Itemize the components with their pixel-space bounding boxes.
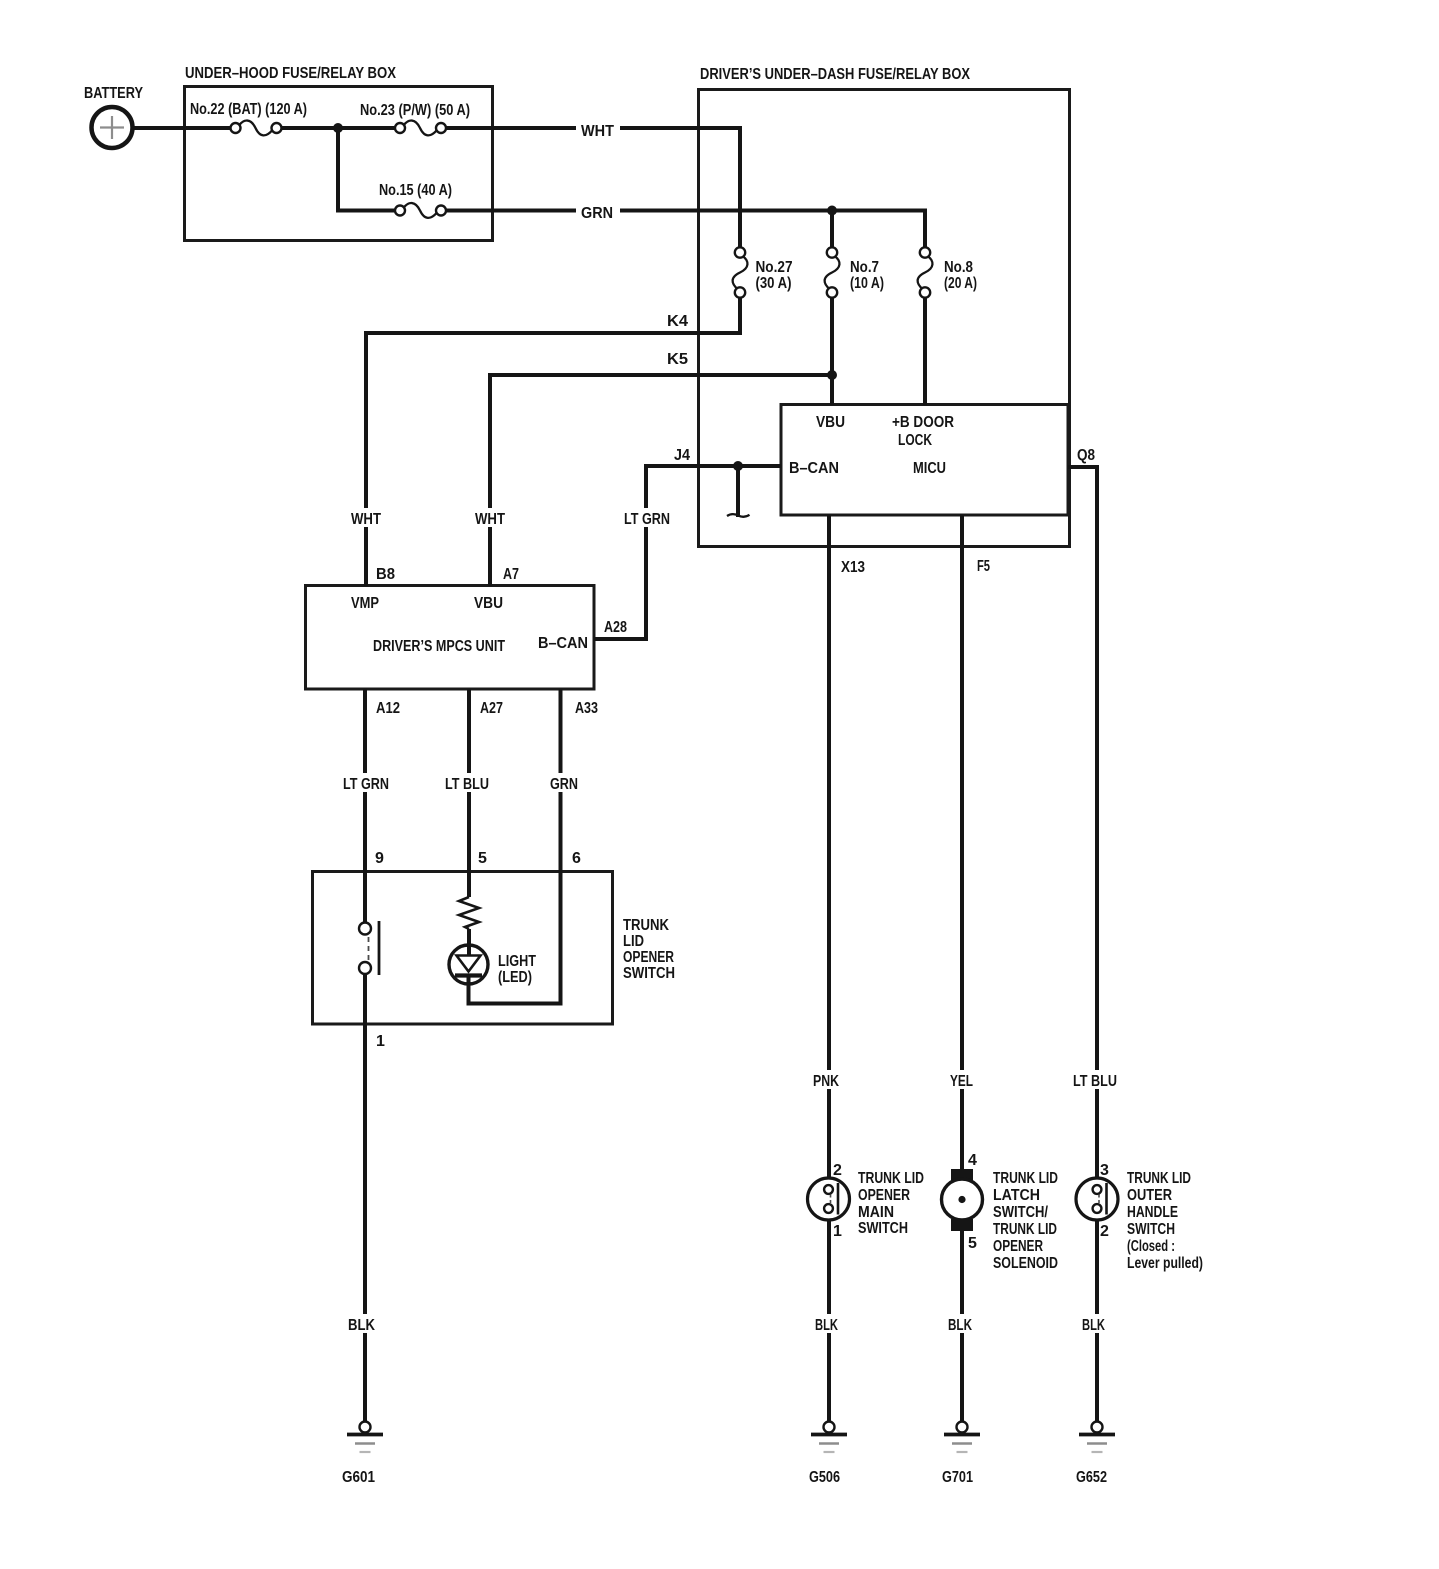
svg-text:G652: G652 xyxy=(1076,1469,1107,1486)
svg-text:WHT: WHT xyxy=(475,511,505,528)
wire F5 MICU to trunk lid latch switch/solenoid xyxy=(960,515,964,1170)
svg-text:F5: F5 xyxy=(977,558,990,575)
svg-text:K4: K4 xyxy=(667,313,688,330)
wire label GRN right column xyxy=(546,773,582,793)
svg-text:1: 1 xyxy=(833,1223,842,1240)
wire label LT BLU middle column xyxy=(441,773,493,793)
svg-text:OPENER: OPENER xyxy=(993,1238,1043,1255)
svg-text:No.7: No.7 xyxy=(850,259,879,276)
svg-text:TRUNK LID: TRUNK LID xyxy=(1127,1170,1191,1187)
svg-text:MICU: MICU xyxy=(913,460,946,477)
svg-text:No.27: No.27 xyxy=(756,259,793,276)
svg-text:No.15 (40 A): No.15 (40 A) xyxy=(379,182,452,199)
wire A27 LT BLU to resistor pin 5 xyxy=(467,689,471,897)
node junction B-CAN J4 xyxy=(733,461,743,471)
svg-text:DRIVER’S MPCS UNIT: DRIVER’S MPCS UNIT xyxy=(373,638,505,655)
wire fuse No.22 to node A xyxy=(281,126,334,130)
wire node A to fuse No.23 xyxy=(342,126,396,130)
svg-text:VMP: VMP xyxy=(351,595,379,612)
driver's under-dash fuse/relay box xyxy=(699,90,1070,547)
svg-text:TRUNK LID: TRUNK LID xyxy=(858,1170,924,1187)
svg-text:OPENER: OPENER xyxy=(858,1187,910,1204)
svg-text:9: 9 xyxy=(375,850,384,867)
svg-text:SOLENOID: SOLENOID xyxy=(993,1255,1058,1272)
svg-text:K5: K5 xyxy=(667,351,688,368)
svg-text:UNDER–HOOD FUSE/RELAY BOX: UNDER–HOOD FUSE/RELAY BOX xyxy=(185,65,396,82)
svg-text:YEL: YEL xyxy=(950,1073,973,1090)
wire fuse No.8 down to MICU +B DOOR LOCK pin xyxy=(923,297,927,405)
svg-text:TRUNK LID: TRUNK LID xyxy=(993,1170,1058,1187)
svg-text:TRUNK LID: TRUNK LID xyxy=(993,1221,1057,1238)
svg-text:LT BLU: LT BLU xyxy=(445,776,489,793)
fuse No.15 (40 A) xyxy=(395,203,446,218)
fuse No.7 (10 A) xyxy=(825,247,840,297)
svg-text:(Closed :: (Closed : xyxy=(1127,1238,1175,1255)
wire GRN fuse No.15 to under-dash box down to fuse No.8 xyxy=(446,211,926,249)
trunk lid latch switch / trunk lid opener solenoid xyxy=(942,1169,983,1231)
svg-text:2: 2 xyxy=(1100,1223,1109,1240)
svg-text:WHT: WHT xyxy=(351,511,381,528)
MICU unit box xyxy=(781,405,1068,516)
trunk lid outer handle switch xyxy=(1076,1178,1118,1220)
svg-text:3: 3 xyxy=(1100,1162,1109,1179)
svg-text:A28: A28 xyxy=(604,619,627,636)
wire X13 MICU to trunk lid opener main switch xyxy=(827,515,831,1186)
fuse No.7 value label xyxy=(850,259,884,292)
svg-text:OUTER: OUTER xyxy=(1127,1187,1172,1204)
trunk lid latch switch / opener solenoid label xyxy=(993,1170,1058,1272)
svg-text:LT GRN: LT GRN xyxy=(343,776,389,793)
svg-text:5: 5 xyxy=(478,850,487,867)
wire solenoid pin 5 to ground G701 xyxy=(960,1230,964,1422)
ground G506 xyxy=(811,1422,847,1453)
wire fuse No.7 down to MICU VBU pin xyxy=(830,297,834,405)
fuse No.27 (30 A) xyxy=(733,247,748,297)
svg-text:LIGHT: LIGHT xyxy=(498,953,536,970)
wire main switch pin 1 to ground G506 xyxy=(827,1213,831,1422)
svg-text:SWITCH/: SWITCH/ xyxy=(993,1204,1048,1221)
wire label LT GRN left column xyxy=(339,773,393,793)
LED light xyxy=(449,945,488,984)
trunk lid opener switch box xyxy=(313,872,613,1025)
svg-text:G506: G506 xyxy=(809,1469,840,1486)
wire battery to fuse No.22 xyxy=(131,126,231,130)
svg-text:2: 2 xyxy=(833,1162,842,1179)
fuse No.27 value label xyxy=(756,259,793,292)
svg-text:GRN: GRN xyxy=(581,205,613,222)
wire label LT BLU right column xyxy=(1069,1070,1121,1090)
svg-text:Q8: Q8 xyxy=(1077,447,1095,464)
MICU pin label +B DOOR LOCK xyxy=(892,414,954,449)
svg-text:(LED): (LED) xyxy=(498,969,532,986)
wire label WHT middle xyxy=(470,508,510,528)
wire label BLK G701 xyxy=(944,1314,976,1334)
svg-text:G701: G701 xyxy=(942,1469,973,1486)
wire label GRN top xyxy=(576,202,620,222)
node junction K5 xyxy=(827,370,837,380)
trunk lid outer handle switch label xyxy=(1127,1170,1203,1272)
svg-text:+B DOOR: +B DOOR xyxy=(892,414,954,431)
svg-text:BATTERY: BATTERY xyxy=(84,85,143,102)
svg-text:No.22 (BAT) (120 A): No.22 (BAT) (120 A) xyxy=(190,101,307,118)
svg-text:No.8: No.8 xyxy=(944,259,973,276)
wire label BLK left xyxy=(344,1314,380,1334)
svg-text:(10 A): (10 A) xyxy=(850,275,884,292)
svg-text:SWITCH: SWITCH xyxy=(858,1220,908,1237)
svg-text:DRIVER’S UNDER–DASH FUSE/RELAY: DRIVER’S UNDER–DASH FUSE/RELAY BOX xyxy=(700,66,970,83)
svg-text:1: 1 xyxy=(376,1033,385,1050)
driver's MPCS unit box xyxy=(306,586,595,690)
svg-text:LOCK: LOCK xyxy=(898,432,932,449)
fuse No.8 value label xyxy=(944,259,977,292)
svg-text:VBU: VBU xyxy=(816,414,845,431)
wire Q8 MICU to trunk lid outer handle switch xyxy=(1068,467,1097,1185)
svg-text:(20 A): (20 A) xyxy=(944,275,977,292)
svg-text:BLK: BLK xyxy=(815,1317,838,1334)
under-hood fuse/relay box xyxy=(185,87,493,241)
wire node A down to fuse No.15 xyxy=(338,128,396,211)
svg-text:4: 4 xyxy=(968,1152,977,1169)
svg-text:HANDLE: HANDLE xyxy=(1127,1204,1178,1221)
wire label PNK xyxy=(809,1070,843,1090)
svg-text:B–CAN: B–CAN xyxy=(538,635,588,652)
ground G701 xyxy=(944,1422,980,1453)
svg-text:A12: A12 xyxy=(376,700,400,717)
svg-text:LID: LID xyxy=(623,933,644,950)
svg-text:J4: J4 xyxy=(674,447,690,464)
fuse No.23 (P/W) (50 A) xyxy=(395,121,446,136)
fuse No.8 (20 A) xyxy=(918,247,933,297)
wire GRN node down to fuse No.7 xyxy=(830,211,834,249)
LED value label xyxy=(498,953,536,986)
svg-text:Lever pulled): Lever pulled) xyxy=(1127,1255,1203,1272)
svg-text:B8: B8 xyxy=(376,566,395,583)
wire WHT fuse No.23 to under-dash box down to fuse No.27 xyxy=(446,128,741,248)
wire label LT GRN right xyxy=(620,508,674,528)
svg-text:BLK: BLK xyxy=(948,1317,972,1334)
wire A33 GRN pin 6 to LED cathode xyxy=(469,689,561,1004)
svg-text:WHT: WHT xyxy=(581,123,614,140)
svg-text:VBU: VBU xyxy=(474,595,503,612)
node junction GRN / fuse No.7 xyxy=(827,206,837,216)
svg-text:(30 A): (30 A) xyxy=(756,275,792,292)
svg-text:MAIN: MAIN xyxy=(858,1204,894,1221)
svg-text:SWITCH: SWITCH xyxy=(623,965,675,982)
wire switch pin 1 to ground G601 xyxy=(363,973,367,1422)
svg-text:PNK: PNK xyxy=(813,1073,839,1090)
svg-text:5: 5 xyxy=(968,1235,977,1252)
ground G601 xyxy=(347,1422,383,1453)
wire outer handle switch pin 2 to ground G652 xyxy=(1095,1213,1099,1422)
svg-text:X13: X13 xyxy=(841,559,865,576)
svg-text:LATCH: LATCH xyxy=(993,1187,1040,1204)
svg-text:LT BLU: LT BLU xyxy=(1073,1073,1117,1090)
wire resistor to LED anode xyxy=(467,929,471,956)
svg-text:B–CAN: B–CAN xyxy=(789,460,839,477)
svg-text:G601: G601 xyxy=(342,1469,375,1486)
wire K5 to MPCS pin A7 xyxy=(490,375,832,586)
B-CAN terminator symbol xyxy=(727,514,750,517)
svg-text:LT GRN: LT GRN xyxy=(624,511,670,528)
svg-text:SWITCH: SWITCH xyxy=(1127,1221,1175,1238)
node A junction dot xyxy=(333,123,343,133)
svg-text:GRN: GRN xyxy=(550,776,578,793)
svg-text:6: 6 xyxy=(572,850,581,867)
svg-text:A7: A7 xyxy=(503,566,519,583)
wire label BLK G652 xyxy=(1078,1314,1110,1334)
trunk lid opener main switch label xyxy=(858,1170,924,1237)
svg-text:OPENER: OPENER xyxy=(623,949,674,966)
svg-text:No.23 (P/W) (50 A): No.23 (P/W) (50 A) xyxy=(360,102,470,119)
svg-text:BLK: BLK xyxy=(348,1317,375,1334)
svg-text:BLK: BLK xyxy=(1082,1317,1105,1334)
wire label BLK G506 xyxy=(811,1314,843,1334)
resistor (LED limiting) xyxy=(459,897,479,929)
trunk lid opener main switch xyxy=(808,1178,850,1220)
trunk lid opener switch label xyxy=(623,917,675,982)
svg-text:A33: A33 xyxy=(575,700,598,717)
trunk lid opener switch contacts pins 9-1 xyxy=(359,921,379,975)
wire K4 fuse No.27 to MPCS pin B8 xyxy=(366,297,740,586)
wire B-CAN J4 MICU to MPCS pin A28 xyxy=(594,466,781,639)
wire label WHT top xyxy=(576,120,620,140)
wire A12 LT GRN to opener switch pin 9 xyxy=(363,689,367,923)
ground G652 xyxy=(1079,1422,1115,1453)
wire label YEL xyxy=(946,1070,977,1090)
svg-text:TRUNK: TRUNK xyxy=(623,917,669,934)
svg-text:A27: A27 xyxy=(480,700,503,717)
battery xyxy=(92,107,133,148)
wire label WHT left xyxy=(346,508,386,528)
wire B-CAN terminator stub xyxy=(736,466,740,517)
fuse No.22 (BAT) (120 A) xyxy=(231,121,282,136)
